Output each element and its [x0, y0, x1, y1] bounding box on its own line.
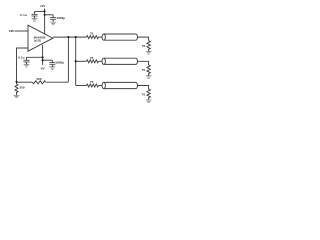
svg-text:1000p: 1000p	[57, 16, 66, 20]
svg-text:0.1u: 0.1u	[20, 13, 27, 17]
svg-text:75: 75	[142, 44, 146, 48]
svg-text:VIN: VIN	[9, 29, 14, 33]
svg-text:1000p: 1000p	[55, 61, 64, 65]
svg-text:500: 500	[37, 77, 42, 81]
svg-text:200: 200	[20, 86, 25, 90]
svg-text:75: 75	[90, 32, 94, 36]
svg-text:75: 75	[90, 80, 94, 84]
svg-text:75: 75	[142, 68, 146, 72]
svg-text:75: 75	[142, 92, 146, 96]
svg-text:0.1u: 0.1u	[18, 55, 25, 59]
svg-text:75: 75	[90, 56, 94, 60]
svg-text:(x1/3): (x1/3)	[34, 39, 41, 43]
svg-text:-5V: -5V	[40, 67, 45, 71]
svg-text:+5V: +5V	[40, 4, 45, 8]
